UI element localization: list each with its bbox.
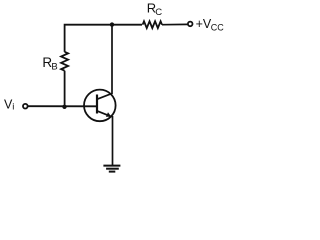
svg-text:B: B bbox=[51, 61, 57, 72]
svg-text:C: C bbox=[155, 7, 162, 18]
svg-text:+V: +V bbox=[196, 17, 212, 31]
svg-text:i: i bbox=[12, 102, 14, 113]
svg-text:CC: CC bbox=[211, 22, 224, 32]
